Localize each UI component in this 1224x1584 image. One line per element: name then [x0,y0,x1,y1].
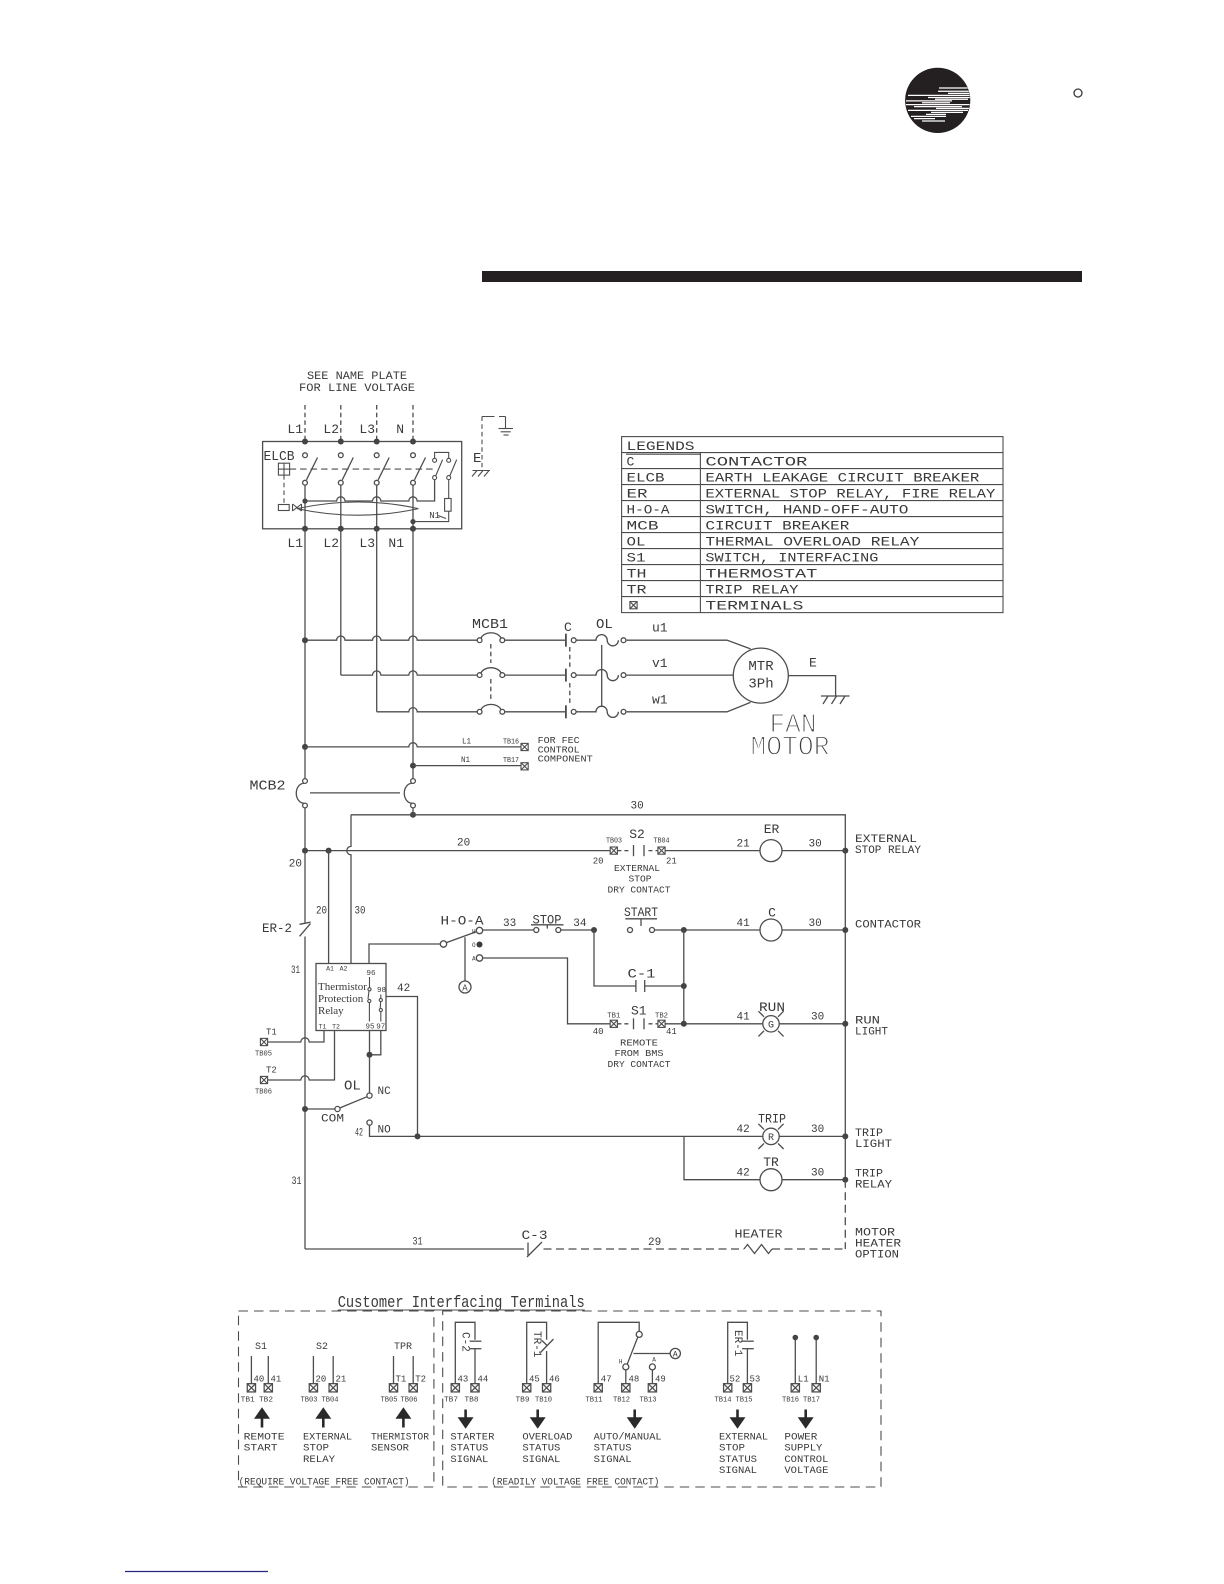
svg-text:TB11: TB11 [586,1397,603,1405]
svg-text:SWITCH, INTERFACING: SWITCH, INTERFACING [705,551,878,566]
svg-text:(REQUIRE VOLTAGE FREE CONTACT): (REQUIRE VOLTAGE FREE CONTACT) [239,1477,410,1489]
svg-text:START: START [244,1444,278,1455]
svg-text:TB13: TB13 [640,1397,657,1405]
svg-text:SIGNAL: SIGNAL [522,1455,560,1466]
svg-text:RUN: RUN [759,1000,785,1015]
svg-text:TB15: TB15 [736,1397,753,1405]
svg-text:TB04: TB04 [322,1397,339,1405]
svg-text:O: O [472,942,476,949]
svg-text:45: 45 [529,1375,540,1385]
svg-text:48: 48 [629,1375,640,1385]
svg-text:T2: T2 [266,1066,277,1076]
svg-text:30: 30 [811,1012,824,1024]
svg-text:TR: TR [627,583,647,598]
svg-text:H: H [472,929,476,936]
svg-text:TB17: TB17 [803,1397,820,1405]
svg-text:OL: OL [596,617,613,633]
svg-text:STATUS: STATUS [450,1444,488,1455]
svg-text:N1: N1 [388,536,404,551]
svg-text:L1: L1 [462,737,471,747]
svg-text:LIGHT: LIGHT [855,1139,892,1151]
svg-text:A: A [462,984,468,994]
svg-text:20: 20 [316,1375,327,1385]
svg-text:DRY CONTACT: DRY CONTACT [608,886,672,896]
svg-text:TB7: TB7 [444,1397,458,1405]
svg-text:NO: NO [378,1125,392,1137]
svg-text:EXTERNAL: EXTERNAL [303,1432,352,1443]
svg-text:(READILY VOLTAGE FREE CONTACT): (READILY VOLTAGE FREE CONTACT) [491,1477,659,1489]
svg-text:H-O-A: H-O-A [441,914,484,929]
svg-text:N1: N1 [819,1375,830,1385]
svg-text:FROM BMS: FROM BMS [615,1049,664,1059]
svg-text:21: 21 [336,1375,347,1385]
svg-text:TB2: TB2 [655,1013,668,1021]
svg-text:TB17: TB17 [503,757,519,765]
svg-text:L1: L1 [798,1375,809,1385]
svg-text:TB12: TB12 [613,1397,630,1405]
svg-text:C-1: C-1 [628,967,656,982]
svg-text:POWER: POWER [784,1432,817,1443]
svg-text:S2: S2 [316,1342,328,1353]
svg-text:RELAY: RELAY [855,1180,892,1192]
svg-text:OVERLOAD: OVERLOAD [522,1432,572,1443]
svg-text:20: 20 [289,859,302,871]
svg-text:ER: ER [764,822,780,837]
svg-text:A: A [673,1351,678,1360]
svg-text:TERMINALS: TERMINALS [705,599,803,614]
svg-text:TB2: TB2 [259,1397,273,1405]
svg-text:Protection: Protection [318,993,364,1005]
svg-text:N: N [396,422,404,437]
svg-text:L1: L1 [287,422,303,437]
svg-text:SIGNAL: SIGNAL [594,1455,632,1466]
svg-text:LEGENDS: LEGENDS [627,439,695,454]
svg-text:ER-2: ER-2 [262,921,292,936]
svg-text:97: 97 [376,1024,385,1032]
svg-text:DRY CONTACT: DRY CONTACT [608,1060,672,1070]
svg-text:ER: ER [627,487,648,502]
svg-text:T2: T2 [415,1375,426,1385]
svg-text:CIRCUIT BREAKER: CIRCUIT BREAKER [705,519,849,534]
svg-text:STOP: STOP [303,1444,329,1455]
svg-text:AUTO/MANUAL: AUTO/MANUAL [594,1431,662,1443]
svg-text:MCB: MCB [627,519,659,534]
svg-text:MCB1: MCB1 [472,617,508,633]
svg-text:TB16: TB16 [503,739,519,747]
svg-text:98: 98 [377,987,386,995]
svg-text:ELCB: ELCB [264,449,295,465]
svg-text:A1: A1 [326,966,334,973]
svg-text:NC: NC [378,1086,392,1098]
svg-text:L3: L3 [359,536,375,551]
svg-text:30: 30 [811,1168,824,1180]
svg-text:STATUS: STATUS [522,1444,560,1455]
svg-text:L2: L2 [323,422,339,437]
svg-text:MCB2: MCB2 [250,779,286,795]
svg-text:STOP: STOP [629,875,652,885]
svg-text:T2: T2 [332,1024,340,1031]
svg-text:N1: N1 [461,755,470,765]
svg-text:ER-1: ER-1 [731,1330,743,1357]
svg-text:44: 44 [478,1375,489,1385]
svg-text:THERMAL OVERLOAD RELAY: THERMAL OVERLOAD RELAY [705,535,919,550]
svg-text:TR-1: TR-1 [530,1331,542,1358]
svg-text:46: 46 [549,1375,560,1385]
svg-text:30: 30 [355,906,366,918]
svg-text:96: 96 [366,970,376,978]
svg-text:R: R [768,1133,774,1144]
svg-text:47: 47 [601,1375,612,1385]
svg-text:CONTROL: CONTROL [784,1455,828,1466]
svg-text:TB05: TB05 [381,1397,398,1405]
svg-text:MOTOR: MOTOR [751,734,830,764]
svg-text:STOP: STOP [719,1444,745,1455]
svg-text:SIGNAL: SIGNAL [719,1466,757,1477]
svg-text:T1: T1 [266,1028,277,1038]
svg-text:41: 41 [666,1027,677,1037]
svg-text:31: 31 [413,1237,423,1249]
svg-text:S2: S2 [629,827,645,842]
svg-text:29: 29 [648,1237,661,1249]
svg-text:OL: OL [627,535,646,550]
svg-text:LIGHT: LIGHT [855,1027,888,1039]
svg-text:A: A [472,956,476,963]
svg-text:43: 43 [458,1375,469,1385]
svg-text:TRIP RELAY: TRIP RELAY [705,583,798,598]
svg-text:L1: L1 [287,536,303,551]
svg-text:Relay: Relay [318,1005,344,1017]
svg-text:CONTACTOR: CONTACTOR [705,455,807,470]
svg-text:OL: OL [344,1079,361,1095]
svg-text:TB06: TB06 [255,1089,272,1097]
svg-text:STARTER: STARTER [450,1432,494,1443]
svg-text:40: 40 [593,1027,604,1037]
svg-text:G: G [768,1020,774,1031]
svg-text:STATUS: STATUS [594,1444,632,1455]
svg-text:L3: L3 [359,422,375,437]
svg-text:TRIP: TRIP [758,1112,786,1127]
svg-text:COMPONENT: COMPONENT [538,755,594,765]
svg-text:21: 21 [666,857,677,867]
svg-text:41: 41 [271,1375,282,1385]
svg-text:3Ph: 3Ph [748,677,773,693]
svg-text:TB1: TB1 [241,1397,255,1405]
svg-text:COM: COM [321,1114,344,1126]
svg-text:31: 31 [291,965,300,977]
svg-text:SIGNAL: SIGNAL [450,1455,488,1466]
svg-text:CONTACTOR: CONTACTOR [855,920,921,932]
svg-text:95: 95 [365,1024,375,1032]
svg-text:TB14: TB14 [715,1397,732,1405]
svg-text:SEE NAME PLATE: SEE NAME PLATE [307,371,407,383]
svg-text:30: 30 [811,1124,824,1136]
svg-text:TB1: TB1 [607,1013,620,1021]
svg-text:TB8: TB8 [465,1397,479,1405]
svg-text:TH: TH [627,567,647,582]
svg-text:THERMISTOR: THERMISTOR [371,1432,429,1443]
svg-text:21: 21 [737,838,751,850]
svg-text:40: 40 [254,1375,265,1385]
svg-text:TB16: TB16 [782,1397,799,1405]
svg-text:C-2: C-2 [459,1332,471,1352]
svg-text:20: 20 [593,857,604,867]
svg-text:S1: S1 [631,1004,647,1019]
svg-text:SUPPLY: SUPPLY [784,1444,822,1455]
svg-text:SWITCH, HAND-OFF-AUTO: SWITCH, HAND-OFF-AUTO [705,503,908,518]
svg-text:Thermistor: Thermistor [318,981,367,993]
svg-text:TR: TR [763,1155,779,1170]
svg-text:42: 42 [397,983,410,995]
svg-text:30: 30 [809,838,822,850]
svg-text:C: C [627,455,635,470]
svg-text:SENSOR: SENSOR [371,1444,409,1455]
svg-text:START: START [624,905,658,920]
svg-text:STATUS: STATUS [719,1455,757,1466]
svg-text:FOR LINE VOLTAGE: FOR LINE VOLTAGE [299,383,415,395]
svg-text:TPR: TPR [394,1342,412,1353]
svg-text:TB9: TB9 [516,1397,530,1405]
svg-text:20: 20 [316,906,327,918]
svg-text:TB10: TB10 [535,1397,552,1405]
svg-text:C-3: C-3 [522,1228,548,1243]
svg-text:S1: S1 [255,1342,267,1353]
svg-text:42: 42 [355,1128,363,1140]
svg-text:34: 34 [573,918,587,930]
svg-text:THERMOSTAT: THERMOSTAT [705,567,817,582]
svg-text:A2: A2 [340,966,348,973]
svg-text:53: 53 [750,1375,761,1385]
svg-text:TB06: TB06 [401,1397,418,1405]
svg-text:REMOTE: REMOTE [244,1432,285,1443]
svg-text:E: E [473,451,481,467]
svg-text:RELAY: RELAY [303,1455,335,1466]
svg-text:HEATER: HEATER [735,1228,783,1242]
svg-text:u1: u1 [652,621,668,636]
svg-text:42: 42 [737,1168,750,1180]
svg-text:ELCB: ELCB [627,471,665,486]
svg-text:EARTH LEAKAGE CIRCUIT BREAKER: EARTH LEAKAGE CIRCUIT BREAKER [705,471,979,486]
svg-text:31: 31 [292,1176,302,1188]
svg-text:T1: T1 [319,1024,327,1031]
svg-text:T1: T1 [396,1375,407,1385]
svg-text:A: A [652,1357,656,1364]
svg-text:C: C [564,620,572,635]
svg-text:H: H [619,1359,623,1366]
svg-text:TB03: TB03 [301,1397,318,1405]
svg-text:TB05: TB05 [255,1051,272,1059]
svg-text:H-O-A: H-O-A [627,503,670,518]
svg-text:49: 49 [655,1375,666,1385]
svg-text:REMOTE: REMOTE [620,1039,658,1049]
svg-text:30: 30 [809,918,822,930]
svg-text:TB03: TB03 [606,838,622,846]
svg-text:C: C [768,906,776,921]
svg-text:42: 42 [737,1124,750,1136]
svg-text:VOLTAGE: VOLTAGE [784,1466,828,1477]
svg-text:EXTERNAL STOP RELAY, FIRE RELA: EXTERNAL STOP RELAY, FIRE RELAY [705,487,995,502]
svg-text:41: 41 [737,918,751,930]
svg-text:20: 20 [457,838,470,850]
svg-text:30: 30 [631,801,644,813]
svg-text:OPTION: OPTION [855,1250,899,1262]
svg-text:E: E [809,656,817,671]
svg-text:L2: L2 [323,536,339,551]
svg-text:w1: w1 [652,693,668,708]
svg-text:MTR: MTR [748,659,774,675]
svg-text:EXTERNAL: EXTERNAL [614,864,660,874]
svg-text:v1: v1 [652,656,668,671]
svg-text:TB04: TB04 [654,838,670,846]
svg-text:41: 41 [737,1012,751,1024]
svg-text:52: 52 [730,1375,741,1385]
svg-text:33: 33 [503,918,516,930]
svg-text:STOP RELAY: STOP RELAY [855,845,921,857]
svg-text:EXTERNAL: EXTERNAL [719,1432,768,1443]
svg-text:S1: S1 [627,551,646,566]
